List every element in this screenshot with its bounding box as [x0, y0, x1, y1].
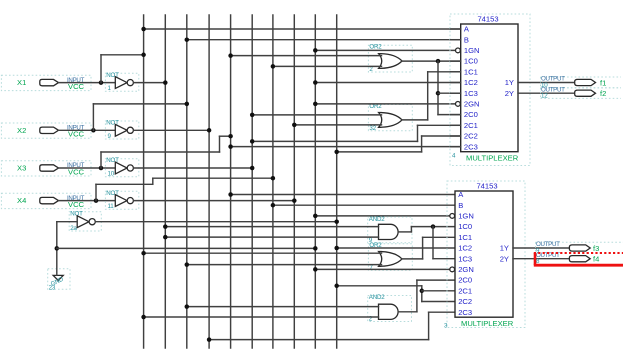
svg-text:OR2: OR2	[369, 43, 382, 50]
inverter NOT U11	[105, 190, 138, 210]
or gate OR2 #1	[368, 43, 412, 73]
svg-text:1Y: 1Y	[500, 244, 509, 253]
wire OR3 input B (X2)	[187, 264, 382, 266]
output pin f1	[541, 76, 622, 89]
wire AND2 input A (X2)	[187, 306, 379, 308]
wire X4 riser to bus (jog)	[95, 184, 97, 200]
svg-text:2C3: 2C3	[458, 308, 472, 317]
wire GND to chip1 pin 1C2	[315, 82, 460, 84]
wire bus net X4	[272, 15, 274, 348]
svg-text:2C1: 2C1	[464, 121, 478, 130]
wire net VCC to chip2 pin 1C2	[337, 247, 455, 249]
svg-text:2C0: 2C0	[458, 276, 472, 285]
wire net X4 to chip2 pin B	[273, 204, 455, 206]
node X3 bus tap	[228, 134, 233, 139]
node GND bus tap	[313, 246, 318, 251]
wire bus net X4n	[293, 15, 295, 348]
svg-text:VCC: VCC	[68, 130, 85, 139]
output pin f3	[536, 241, 623, 254]
input pin X2	[1, 123, 115, 139]
svg-text:AND2: AND2	[369, 216, 385, 223]
wire X1 riser to bus	[100, 55, 102, 83]
svg-text:1: 1	[108, 85, 112, 92]
inverter NOT U9	[105, 120, 138, 140]
wire net X2n to chip2 pin 2C3	[209, 339, 429, 341]
svg-text:MULTIPLEXER: MULTIPLEXER	[461, 319, 514, 328]
wire bus net X1n	[164, 15, 166, 348]
wire bus net X2n	[208, 15, 210, 348]
multiplexer chip U74153 #1	[450, 14, 530, 166]
svg-text:10: 10	[108, 171, 115, 178]
wire OR2 input B (X4n)	[294, 124, 381, 126]
svg-text:VCC: VCC	[68, 200, 85, 209]
wire AND1 input B (X1n)	[165, 236, 378, 238]
node GND tap	[55, 246, 60, 251]
wire NOT11 output to bus X4n	[134, 200, 295, 202]
svg-text:AND2: AND2	[369, 294, 385, 301]
wire chip2 1Y to f3	[513, 247, 569, 249]
output pin f2	[541, 86, 622, 99]
input pin X3	[1, 161, 115, 177]
svg-text:2C3: 2C3	[464, 142, 478, 151]
wire OR3 input A (X1)	[144, 252, 382, 254]
wire AND2 input B (X1)	[144, 316, 379, 318]
and gate AND2 #2	[368, 294, 412, 323]
svg-text:74153: 74153	[476, 181, 497, 190]
input pin X4	[1, 193, 115, 209]
wire AND2 output to 2C0	[398, 311, 417, 313]
svg-text:2Y: 2Y	[500, 254, 509, 263]
svg-text:2C1: 2C1	[458, 286, 472, 295]
svg-text:23: 23	[49, 284, 56, 291]
inverter NOT 2a	[69, 210, 101, 232]
node X3 junction	[99, 166, 104, 171]
node VCC bus tap	[334, 219, 339, 224]
svg-text:OUTPUT: OUTPUT	[536, 241, 560, 248]
wire OR1 input B (X4)	[273, 65, 382, 67]
svg-text:X1: X1	[17, 78, 26, 87]
node X1n bus tap	[163, 80, 168, 85]
or gate OR2 #2	[368, 103, 412, 132]
svg-text:2C2: 2C2	[458, 297, 472, 306]
svg-text:12: 12	[541, 92, 548, 99]
svg-text:9: 9	[108, 133, 112, 140]
svg-text:74153: 74153	[477, 14, 498, 23]
svg-text:4: 4	[452, 153, 456, 160]
wire net VCC to chip1 pin 2C2	[337, 151, 422, 153]
svg-text:B: B	[464, 35, 469, 44]
svg-text:1Y: 1Y	[505, 78, 514, 87]
wire bus net X1	[143, 15, 145, 348]
wire OR1 output to 1C0/1C3/2C0	[402, 60, 461, 62]
wire NOT10 output to bus X3n	[134, 167, 253, 169]
node X1 bus tap	[141, 53, 146, 58]
svg-text:f3: f3	[593, 244, 599, 253]
wire GND net vertical	[56, 222, 58, 276]
svg-text:2GN: 2GN	[464, 100, 480, 109]
svg-text:f1: f1	[600, 78, 606, 87]
wire bus net X3	[230, 15, 232, 348]
svg-text:1C3: 1C3	[464, 89, 478, 98]
wire net X1 to chip1 pin A	[144, 28, 461, 30]
wire GND to chip2 pin 1GN	[315, 215, 449, 217]
svg-text:1C0: 1C0	[458, 222, 472, 231]
wire GND to chip2 pin 2GN	[315, 268, 449, 270]
wire OR2 output to 1C1	[402, 119, 428, 121]
svg-text:B: B	[458, 201, 463, 210]
wire OR3 output to 1C1	[402, 258, 423, 260]
wire net X2 to chip1 pin B	[187, 39, 461, 41]
svg-text:1C3: 1C3	[458, 254, 472, 263]
svg-text:1C2: 1C2	[458, 244, 472, 253]
wire X2 riser to bus	[92, 104, 94, 130]
svg-text:7: 7	[369, 264, 373, 271]
node X1 junction	[99, 80, 104, 85]
svg-text:1GN: 1GN	[458, 212, 474, 221]
wire bus net X3n	[251, 15, 253, 348]
svg-text:1C2: 1C2	[464, 78, 478, 87]
svg-text:2C2: 2C2	[464, 132, 478, 141]
svg-text:2Y: 2Y	[505, 89, 514, 98]
svg-text:MULTIPLEXER: MULTIPLEXER	[466, 154, 519, 163]
wire X3 riser to bus (jog)	[100, 152, 102, 168]
svg-text:2C0: 2C0	[464, 110, 478, 119]
wire bus net VCC	[336, 15, 338, 348]
svg-text:f4: f4	[593, 255, 599, 264]
wire GND to chip1 pin 1GN	[315, 49, 455, 51]
svg-text:1C1: 1C1	[458, 233, 472, 242]
node X4 bus tap	[271, 176, 276, 181]
svg-text:1GN: 1GN	[464, 46, 480, 55]
wire bus net GND	[314, 15, 316, 348]
svg-text:f2: f2	[600, 89, 606, 98]
node X4n bus tap	[292, 198, 297, 203]
svg-text:VCC: VCC	[68, 82, 85, 91]
node X4 junction	[94, 198, 99, 203]
svg-text:1C0: 1C0	[464, 57, 478, 66]
wire AND1 output to 1C0/1C3	[398, 231, 411, 233]
svg-text:32: 32	[369, 125, 376, 132]
wire bus net X2	[186, 15, 188, 348]
input pin X1	[1, 75, 115, 91]
svg-text:X2: X2	[17, 126, 26, 135]
wire OR1 input A (X3)	[231, 55, 382, 57]
wire OR2 input A (X3n)	[252, 114, 381, 116]
wire NOT2a output to bus VCC	[95, 221, 336, 223]
multiplexer chip U74153 #2	[444, 181, 525, 330]
node X2 bus tap	[185, 102, 190, 107]
node X3n bus tap	[250, 166, 255, 171]
svg-text:11: 11	[108, 203, 115, 210]
inverter NOT U10	[105, 157, 138, 177]
output pin f4 (selected)	[536, 252, 599, 265]
svg-text:1C1: 1C1	[464, 67, 478, 76]
wire AND1 input A (X1n)	[165, 226, 378, 228]
wire net X3 to chip2 pin A	[231, 194, 455, 196]
node X2 junction	[91, 128, 96, 133]
wire GND to chip1 pin 2GN	[315, 103, 455, 105]
svg-text:VCC: VCC	[68, 167, 85, 176]
and gate AND2 #1	[368, 216, 412, 244]
wire net X3 to chip1 pin 2C3	[231, 146, 461, 148]
svg-text:X4: X4	[17, 196, 26, 205]
wire NOT9 output to bus X2n	[134, 129, 209, 131]
wire chip2 2Y to f4	[513, 258, 569, 260]
node X2n bus tap	[207, 128, 212, 133]
svg-text:X3: X3	[17, 164, 26, 173]
wire NOT1 output to bus X1n	[134, 82, 166, 84]
wire GND to bus	[57, 247, 316, 249]
ground symbol GND	[48, 269, 70, 292]
svg-text:2GN: 2GN	[458, 265, 474, 274]
wire net VCC to chip2 pins 2C1/2C2	[337, 285, 422, 287]
svg-text:2a: 2a	[70, 225, 77, 232]
or gate OR2 #3	[368, 242, 412, 271]
wire net X3n to chip1 pin 2C1	[252, 140, 417, 142]
wire chip1 1Y to f1	[518, 82, 575, 84]
selection highlight around f4	[534, 253, 623, 265]
wire chip1 2Y to f2	[518, 92, 575, 94]
inverter NOT U1	[105, 72, 138, 92]
